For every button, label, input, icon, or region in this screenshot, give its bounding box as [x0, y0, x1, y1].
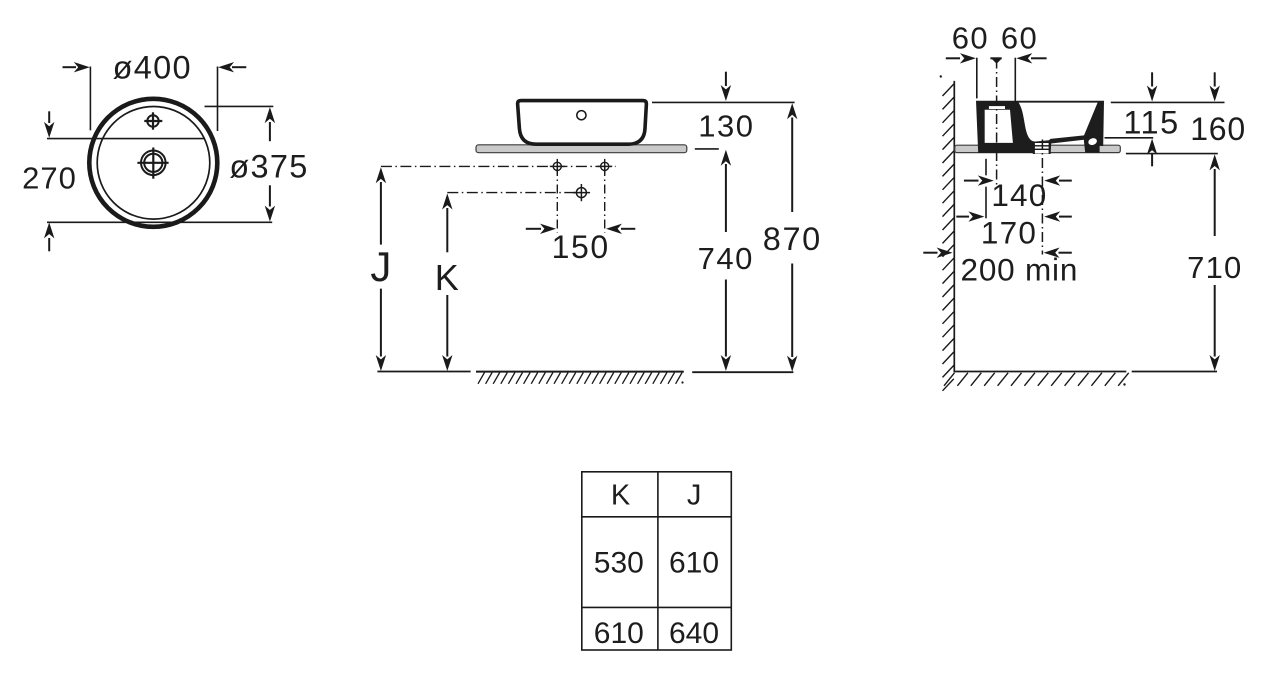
- dim o400 extension line left: [89, 67, 91, 131]
- centerline level 2: [447, 192, 584, 194]
- dim 60 extension B: [1014, 58, 1016, 103]
- dim 170 extension line: [985, 159, 987, 219]
- top view: outer rim circle: [89, 99, 217, 227]
- floor hatch end dot: [1123, 383, 1125, 385]
- dim 870 bottom arrow: [791, 264, 793, 358]
- dim 200min arrow right: [1059, 252, 1072, 254]
- basin faucet slot (white): [989, 106, 1005, 109]
- dim 710 bottom arrow: [1214, 285, 1216, 357]
- svg-text:140: 140: [991, 177, 1047, 213]
- svg-text:60: 60: [1001, 21, 1038, 56]
- drain stripes: [1034, 142, 1050, 149]
- dim 160 bottom reference line: [1126, 153, 1218, 155]
- dim 60 arrow left: [946, 57, 960, 59]
- dim 130 top reference line: [652, 101, 795, 103]
- top view: drain mark: [137, 148, 168, 179]
- ground hatch: [478, 373, 682, 384]
- dim 740 bottom arrow: [725, 280, 727, 357]
- dim 115 top arrow: [1151, 72, 1153, 86]
- dim 150 arrow left: [526, 228, 541, 230]
- overflow notch (white): [1087, 137, 1097, 146]
- svg-text:J: J: [370, 243, 391, 290]
- dim 270 top reference line: [47, 138, 101, 140]
- ground line left: [377, 371, 470, 373]
- svg-text:160: 160: [1190, 111, 1246, 147]
- front view: basin profile: [518, 101, 647, 145]
- svg-text:270: 270: [22, 161, 77, 196]
- dim 170 arrow left: [956, 216, 969, 218]
- svg-text:710: 710: [1187, 250, 1242, 285]
- basin drain channel (white): [1035, 142, 1049, 154]
- svg-text:530: 530: [594, 547, 644, 580]
- svg-text:640: 640: [669, 617, 719, 650]
- dim 140 arrow left: [964, 180, 979, 182]
- basin deck interior (white): [985, 110, 1013, 143]
- crosshair B: [597, 159, 612, 174]
- dim K line top: [442, 194, 452, 210]
- wall hatch top dot: [940, 75, 942, 77]
- rim level extension line: [1111, 101, 1225, 103]
- dim o400 arrow left: [63, 66, 77, 68]
- dim 140 arrow right: [1059, 180, 1072, 182]
- table column divider: [657, 472, 659, 650]
- svg-text:130: 130: [698, 109, 754, 144]
- dim 870 top arrow: [787, 103, 797, 119]
- dim 740 top arrow: [721, 150, 731, 166]
- dim 200min arrow left: [923, 252, 937, 254]
- svg-text:J: J: [687, 479, 702, 511]
- svg-text:60: 60: [952, 21, 989, 56]
- svg-text:K: K: [611, 479, 631, 511]
- crosshair A: [550, 159, 565, 174]
- dim 130 top arrow: [725, 72, 727, 86]
- shared bottom reference line: [47, 221, 272, 223]
- svg-text:740: 740: [698, 241, 754, 276]
- vertical centerline A: [556, 167, 558, 233]
- table row line 2: [582, 606, 732, 608]
- crosshair center: [573, 184, 590, 201]
- ground line hatched: [476, 371, 684, 373]
- dim 115 bottom reference line: [1105, 137, 1154, 139]
- svg-text:200 min: 200 min: [961, 252, 1079, 288]
- centerline level 1: [381, 165, 616, 167]
- top view: inner basin circle: [97, 107, 210, 220]
- side view: floor line: [954, 371, 1127, 373]
- dim 115 bottom arrow: [1147, 139, 1157, 155]
- ground hatch end dot: [681, 381, 683, 383]
- side view: basin section silhouette: [976, 101, 1104, 154]
- dim o400 arrow right: [232, 66, 246, 68]
- dim K line bottom: [446, 295, 448, 357]
- svg-text:ø375: ø375: [229, 148, 308, 184]
- dim o375 bottom arrow: [269, 185, 271, 206]
- vertical centerline B: [604, 167, 606, 233]
- side view: wall line: [953, 81, 955, 372]
- dim o375 top arrow: [269, 122, 271, 141]
- svg-text:610: 610: [594, 617, 644, 650]
- table frame: [582, 472, 732, 650]
- dim 60 arrow right: [1031, 57, 1047, 59]
- table row line 1: [582, 516, 732, 518]
- faucet centerline: [996, 59, 998, 185]
- dim J line bottom: [380, 289, 382, 357]
- basin bowl interior (white): [1019, 103, 1098, 142]
- dim 130 bottom reference line: [695, 148, 719, 150]
- svg-text:610: 610: [669, 547, 719, 580]
- side view: floor hatch: [944, 373, 1129, 386]
- dim 270 bottom arrow: [48, 238, 50, 251]
- dim J line top: [376, 167, 386, 183]
- dim 170 arrow right: [1059, 216, 1072, 218]
- svg-text:870: 870: [763, 221, 822, 257]
- dim 150 arrow right: [621, 228, 635, 230]
- svg-text:115: 115: [1123, 105, 1179, 141]
- dim 60 middle stub arrow: [990, 57, 1001, 59]
- side view: countertop slab: [955, 145, 1121, 152]
- svg-text:K: K: [435, 257, 459, 298]
- dim 60 extension A: [976, 58, 978, 99]
- floor reference line right: [1132, 371, 1217, 373]
- dim o400 extension line right: [217, 67, 219, 132]
- drain centerline: [1041, 140, 1043, 255]
- front view: countertop slab: [476, 145, 687, 153]
- dim 160/710 shared arrow: [1210, 154, 1220, 170]
- side view: wall hatch: [943, 84, 954, 391]
- dim 270 top arrow: [48, 111, 50, 123]
- top view: waterline chord: [101, 138, 205, 140]
- top view: faucet hole mark: [144, 112, 162, 129]
- svg-text:ø400: ø400: [113, 49, 192, 85]
- svg-text:170: 170: [981, 215, 1037, 251]
- front view: overflow hole: [577, 111, 586, 120]
- ground line right extension: [692, 371, 793, 373]
- dim o375 top reference line: [205, 105, 274, 107]
- dim 160 top arrow: [1214, 72, 1216, 86]
- svg-text:150: 150: [552, 229, 610, 265]
